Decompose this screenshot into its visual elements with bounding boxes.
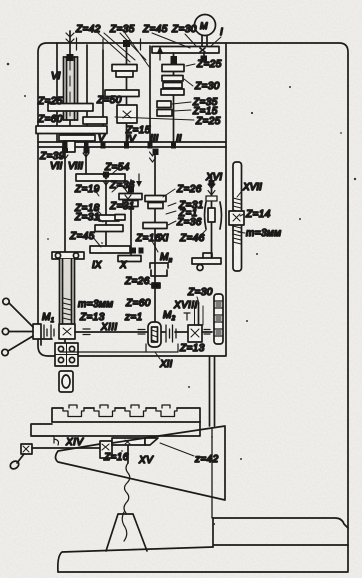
svg-text:Z=45: Z=45 (69, 231, 95, 242)
shaft XI-XII (154, 150, 156, 347)
svg-text:Z=35: Z=35 (109, 24, 135, 35)
svg-text:Z=30: Z=30 (194, 81, 220, 92)
svg-text:XIII: XIII (100, 322, 118, 333)
VI sleeve (64, 33, 78, 120)
svg-text:VIII: VIII (68, 161, 83, 172)
svg-text:Z=16: Z=16 (103, 452, 129, 463)
svg-text:II: II (176, 134, 182, 145)
gear Z=36 on shaft XI (143, 223, 167, 229)
shaft III (149, 46, 151, 142)
gear Z=31 on shaft IX (95, 225, 123, 232)
Z13 pinion box (188, 325, 202, 342)
svg-text:Z=25: Z=25 (195, 116, 221, 127)
overload clutch Mp (150, 263, 168, 268)
svg-text:z=1: z=1 (124, 312, 143, 323)
arrow on III (157, 46, 164, 54)
gear Z=35 on shaft IV (116, 71, 133, 77)
svg-text:М2: М2 (163, 310, 176, 322)
spring squiggle (124, 463, 130, 513)
gear Z=16 on shaft X (115, 215, 125, 221)
leader lines from top labels (98, 33, 135, 62)
svg-text:Z=31: Z=31 (109, 201, 135, 212)
dark spline hubs (62, 40, 215, 254)
base (58, 518, 348, 572)
shaft V (102, 50, 104, 132)
shaft VI (69, 31, 71, 136)
scan speckles (7, 63, 356, 525)
support column under head (210, 357, 215, 518)
shaft IV (126, 40, 128, 142)
scan grain (0, 0, 1, 1)
svg-text:Z=54: Z=54 (104, 162, 130, 173)
gear Z=25 lower on shaft II (161, 89, 184, 95)
svg-text:I: I (220, 27, 223, 38)
handle M1 (2, 298, 54, 355)
svg-text:М1: М1 (42, 312, 54, 324)
svg-text:VII: VII (50, 161, 62, 172)
gear Z=54 on shaft IX (76, 174, 125, 181)
gear Z=26 on shaft XI (145, 196, 166, 202)
bevel box XV (100, 438, 158, 463)
speed gearbox bottom double line (38, 142, 226, 147)
svg-text:m=3мм: m=3мм (246, 228, 281, 239)
shaft VIII stub (85, 147, 87, 176)
svg-text:z=42: z=42 (194, 454, 219, 465)
leader to Z=26 gear (143, 281, 152, 285)
shaft II (173, 53, 175, 142)
motor M (195, 15, 216, 47)
gear Z=25 on shaft II (162, 65, 184, 72)
shaft VIII upper (86, 45, 88, 132)
worm wheel capsule on XII (148, 322, 161, 347)
XVIII shaft (184, 303, 203, 325)
svg-text:Z=19: Z=19 (74, 184, 100, 195)
svg-text:Z=30: Z=30 (171, 24, 197, 35)
machine column outline (38, 43, 348, 571)
svg-text:Z=26: Z=26 (124, 276, 150, 287)
shaft IX (105, 174, 107, 252)
svg-text:Z=42: Z=42 (75, 24, 101, 35)
shaft XVI (211, 176, 213, 258)
XVI bottom bracket (192, 258, 221, 264)
gear Z=60 on shaft VI (36, 126, 107, 134)
coupling block VI-VII (63, 141, 75, 152)
spindle XVII (229, 162, 244, 271)
clutch M2 (166, 325, 176, 342)
worm wheel quill on XVI (205, 202, 222, 229)
svg-text:IX: IX (92, 260, 102, 271)
svg-text:VI: VI (51, 71, 61, 82)
shaft top chevrons (62, 38, 215, 199)
small gear on shaft XVI (206, 196, 217, 201)
gear Z=31 on shaft XI (148, 203, 163, 209)
XIII axis (75, 329, 212, 335)
gear Z=42 on shaft IV (112, 65, 137, 72)
gear Z=45 on shaft IX (90, 246, 130, 253)
svg-text:m=3мм: m=3мм (78, 299, 113, 310)
gear Z=25 on shaft VI (48, 104, 93, 112)
down arrow near X top (138, 174, 140, 182)
gear Z=26 on shaft X lower (118, 256, 141, 262)
svg-text:XVIII: XVIII (173, 300, 198, 311)
svg-text:Z=14: Z=14 (245, 209, 271, 220)
svg-text:М: М (200, 21, 208, 31)
gear block Z=50 with clutch cross (117, 105, 137, 123)
svg-text:XI: XI (158, 233, 169, 244)
worm unit left (52, 252, 84, 392)
svg-text:Z=26: Z=26 (176, 184, 202, 195)
speed box left edge (56, 43, 58, 142)
shaft VII vertical (64, 152, 66, 343)
svg-text:Z=60: Z=60 (125, 298, 151, 309)
table (31, 405, 200, 445)
gear Z=35 on shaft III (157, 101, 171, 108)
gear Z=31 on shaft X (123, 201, 138, 207)
gear Z=15 on shaft III (157, 110, 172, 117)
wedge arm (56, 426, 226, 500)
svg-text:X: X (119, 260, 127, 271)
gear on shaft V (83, 117, 107, 124)
svg-text:Z=13: Z=13 (179, 343, 205, 354)
gear Z=30 on shaft II (162, 76, 183, 82)
svg-text:Z=60: Z=60 (37, 114, 63, 125)
svg-text:Z=25: Z=25 (37, 96, 63, 107)
gear Z=39 on shaft VII (59, 135, 95, 141)
svg-text:Z=30: Z=30 (187, 287, 213, 298)
shaft X (130, 180, 132, 260)
gear Z=19 on shaft X (119, 194, 142, 200)
svg-text:Z=36: Z=36 (176, 217, 202, 228)
gear Z=18 on shaft IX (99, 215, 119, 221)
svg-text:Z=25: Z=25 (196, 59, 222, 70)
gear on shaft II third (163, 83, 182, 89)
svg-text:Z=31: Z=31 (74, 212, 100, 223)
svg-text:Z=16: Z=16 (135, 233, 161, 244)
inner bottom line (60, 351, 146, 353)
svg-text:XII: XII (159, 359, 172, 370)
M2 housing bracket (146, 344, 178, 352)
svg-text:Z=45: Z=45 (142, 24, 168, 35)
XIV drive (9, 444, 100, 470)
gear on shaft IV lower (105, 90, 139, 97)
drill cone (106, 512, 147, 551)
svg-text:XV: XV (138, 455, 154, 466)
feed box leader lines (92, 166, 206, 252)
rack ladder (214, 294, 223, 344)
shaft I coupling bar (152, 47, 219, 57)
